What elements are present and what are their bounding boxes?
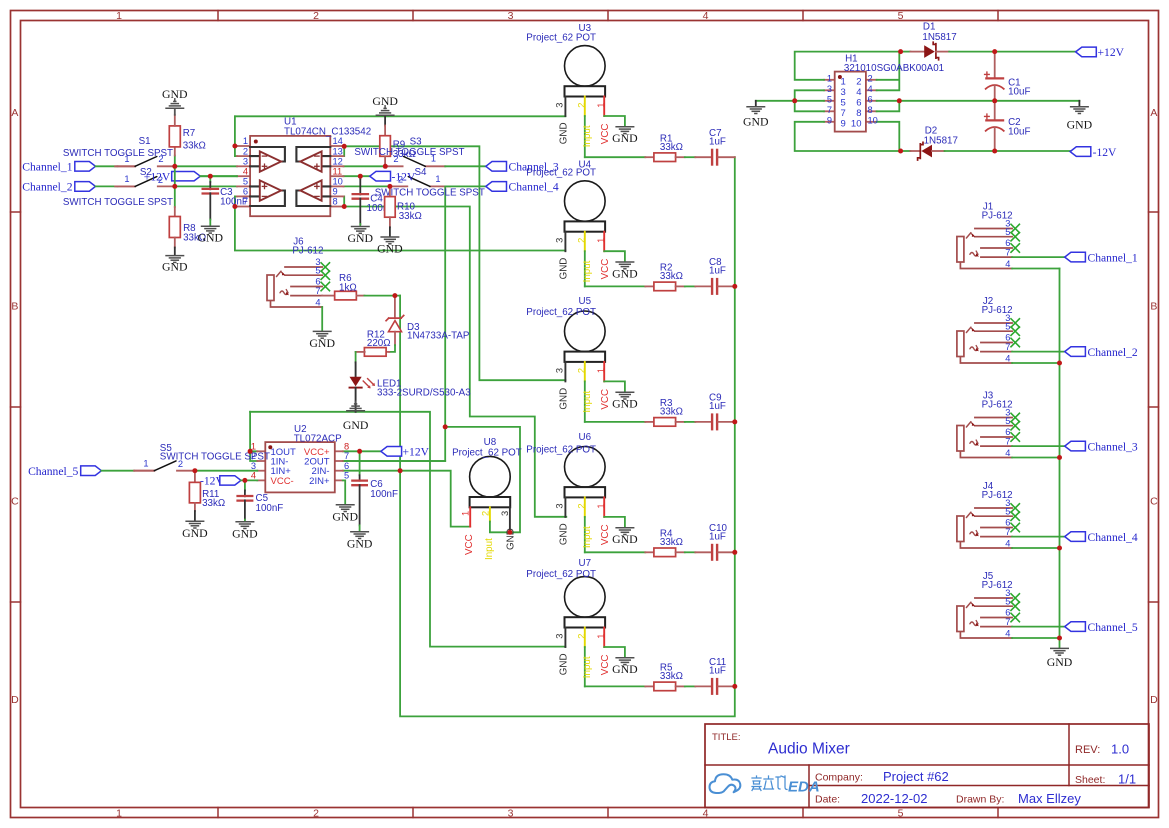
svg-text:4: 4	[1005, 353, 1010, 363]
svg-text:C: C	[1150, 496, 1158, 508]
svg-text:33kΩ: 33kΩ	[660, 671, 683, 682]
svg-text:GND: GND	[559, 523, 570, 545]
svg-text:REV:: REV:	[1075, 744, 1100, 756]
svg-text:5: 5	[827, 94, 832, 104]
svg-text:14: 14	[333, 136, 343, 146]
svg-text:2: 2	[856, 76, 861, 87]
svg-text:+12V: +12V	[403, 446, 430, 459]
svg-text:GND: GND	[612, 532, 638, 546]
svg-text:GND: GND	[559, 258, 570, 280]
svg-text:Input: Input	[582, 125, 593, 147]
svg-text:7: 7	[1005, 247, 1010, 257]
svg-text:33kΩ: 33kΩ	[660, 407, 683, 418]
svg-text:1: 1	[243, 136, 248, 146]
svg-text:5: 5	[344, 471, 349, 481]
svg-text:1N5817: 1N5817	[924, 136, 958, 147]
svg-text:PJ-612: PJ-612	[982, 211, 1013, 222]
svg-text:2: 2	[577, 368, 587, 373]
svg-text:3: 3	[500, 511, 510, 516]
svg-text:+12V: +12V	[144, 170, 171, 183]
svg-text:VCC: VCC	[600, 524, 611, 545]
svg-text:Input: Input	[582, 391, 593, 413]
svg-text:33kΩ: 33kΩ	[660, 271, 683, 282]
svg-text:3: 3	[243, 157, 248, 167]
svg-text:Channel_4: Channel_4	[1088, 531, 1138, 544]
svg-text:1: 1	[435, 174, 440, 184]
svg-text:GND: GND	[612, 131, 638, 145]
svg-text:1: 1	[116, 807, 122, 819]
svg-text:2: 2	[577, 634, 587, 639]
svg-text:7: 7	[1005, 527, 1010, 537]
svg-text:333-2SURD/S530-A3: 333-2SURD/S530-A3	[377, 387, 471, 398]
svg-text:-12V: -12V	[1093, 146, 1117, 159]
svg-text:2IN+: 2IN+	[309, 476, 330, 487]
svg-text:4: 4	[251, 471, 256, 481]
svg-text:U8: U8	[484, 437, 497, 448]
svg-text:6: 6	[243, 187, 248, 197]
svg-text:8: 8	[856, 108, 861, 119]
svg-text:321010SG0ABK00A01: 321010SG0ABK00A01	[844, 63, 944, 74]
svg-text:Project #62: Project #62	[883, 769, 949, 784]
svg-text:1: 1	[143, 459, 148, 469]
svg-text:3: 3	[555, 238, 565, 243]
svg-text:PJ-612: PJ-612	[982, 400, 1013, 411]
svg-text:C: C	[11, 496, 19, 508]
svg-text:33kΩ: 33kΩ	[202, 498, 225, 509]
svg-text:GND: GND	[559, 122, 570, 144]
svg-text:GND: GND	[372, 94, 398, 108]
svg-text:3: 3	[508, 10, 514, 22]
svg-text:8: 8	[344, 442, 349, 452]
svg-text:GND: GND	[332, 509, 358, 523]
svg-text:GND: GND	[1067, 118, 1093, 132]
svg-text:GND: GND	[1047, 655, 1073, 669]
svg-text:Project_62 POT: Project_62 POT	[526, 445, 596, 456]
svg-text:Audio Mixer: Audio Mixer	[768, 741, 850, 758]
svg-text:3: 3	[555, 503, 565, 508]
svg-text:B: B	[11, 301, 18, 313]
svg-text:PJ-612: PJ-612	[982, 490, 1013, 501]
svg-text:13: 13	[333, 146, 343, 156]
svg-text:GND: GND	[348, 231, 374, 245]
svg-text:5: 5	[1005, 596, 1010, 606]
svg-text:3: 3	[555, 368, 565, 373]
svg-text:1: 1	[596, 368, 606, 373]
svg-text:12: 12	[333, 157, 343, 167]
svg-text:Channel_5: Channel_5	[28, 465, 78, 478]
svg-text:S3: S3	[410, 136, 423, 147]
svg-text:7: 7	[1005, 617, 1010, 627]
svg-text:3: 3	[555, 103, 565, 108]
svg-text:4: 4	[703, 10, 709, 22]
svg-text:5: 5	[1005, 416, 1010, 426]
svg-text:2: 2	[480, 511, 490, 516]
svg-text:GND: GND	[232, 526, 258, 540]
svg-text:Channel_1: Channel_1	[1088, 251, 1138, 264]
svg-text:1: 1	[596, 103, 606, 108]
svg-text:Project_62 POT: Project_62 POT	[526, 569, 596, 580]
svg-text:9: 9	[841, 118, 846, 129]
svg-text:GND: GND	[377, 242, 403, 256]
svg-text:TL074CN_C133542: TL074CN_C133542	[284, 127, 371, 138]
svg-text:1: 1	[116, 10, 122, 22]
svg-text:1uF: 1uF	[709, 531, 726, 542]
svg-text:SWITCH TOGGLE SPST: SWITCH TOGGLE SPST	[63, 148, 173, 159]
svg-text:Input: Input	[582, 260, 593, 282]
svg-text:S1: S1	[139, 136, 151, 147]
svg-text:+12V: +12V	[1098, 46, 1125, 59]
svg-text:GND: GND	[559, 388, 570, 410]
svg-text:GND: GND	[309, 336, 335, 350]
svg-text:7: 7	[1005, 342, 1010, 352]
svg-text:2: 2	[868, 73, 873, 83]
svg-text:100nF: 100nF	[370, 489, 398, 500]
svg-text:VCC-: VCC-	[271, 476, 294, 487]
svg-text:-12V: -12V	[392, 170, 416, 183]
svg-text:4: 4	[856, 87, 861, 98]
svg-text:VCC: VCC	[600, 389, 611, 410]
svg-text:GND: GND	[612, 266, 638, 280]
svg-text:4: 4	[703, 807, 709, 819]
svg-text:10uF: 10uF	[1008, 87, 1030, 98]
svg-text:Project_62 POT: Project_62 POT	[526, 168, 596, 179]
svg-text:VCC: VCC	[464, 534, 475, 555]
svg-text:1.0: 1.0	[1111, 742, 1129, 757]
svg-text:10: 10	[333, 177, 343, 187]
svg-text:5: 5	[1005, 506, 1010, 516]
svg-text:10: 10	[868, 115, 878, 125]
svg-text:Company:: Company:	[815, 772, 863, 784]
svg-text:PJ-612: PJ-612	[982, 580, 1013, 591]
svg-text:1: 1	[827, 73, 832, 83]
svg-text:Input: Input	[484, 538, 495, 560]
svg-text:Sheet:: Sheet:	[1075, 774, 1105, 786]
svg-text:3: 3	[555, 634, 565, 639]
svg-text:GND: GND	[612, 397, 638, 411]
svg-text:U7: U7	[579, 558, 592, 569]
svg-text:GND: GND	[743, 115, 769, 129]
svg-text:VCC: VCC	[600, 259, 611, 280]
svg-text:5: 5	[1005, 321, 1010, 331]
svg-text:6: 6	[868, 94, 873, 104]
svg-text:9: 9	[827, 115, 832, 125]
svg-text:Channel_4: Channel_4	[509, 181, 559, 194]
svg-text:1kΩ: 1kΩ	[339, 283, 357, 294]
svg-text:10: 10	[851, 118, 862, 129]
svg-text:SWITCH TOGGLE SPST: SWITCH TOGGLE SPST	[354, 147, 464, 158]
svg-text:33kΩ: 33kΩ	[660, 142, 683, 153]
svg-text:Channel_5: Channel_5	[1088, 621, 1138, 634]
svg-text:Channel_3: Channel_3	[1088, 440, 1138, 453]
svg-text:SWITCH TOGGLE SPST: SWITCH TOGGLE SPST	[63, 197, 173, 208]
svg-text:Max Ellzey: Max Ellzey	[1018, 791, 1081, 806]
svg-text:A: A	[11, 107, 18, 119]
svg-text:GND: GND	[198, 231, 224, 245]
svg-text:1: 1	[124, 174, 129, 184]
svg-text:100nF: 100nF	[256, 503, 284, 514]
svg-text:4: 4	[1005, 628, 1010, 638]
svg-text:VCC: VCC	[600, 655, 611, 676]
svg-text:D: D	[1150, 694, 1158, 706]
svg-text:5: 5	[315, 265, 320, 275]
svg-text:2: 2	[577, 503, 587, 508]
svg-text:Channel_2: Channel_2	[1088, 346, 1138, 359]
svg-text:4: 4	[315, 297, 320, 307]
svg-text:4: 4	[1005, 448, 1010, 458]
svg-text:5: 5	[1005, 227, 1010, 237]
svg-text:3: 3	[508, 807, 514, 819]
svg-text:1: 1	[596, 503, 606, 508]
svg-text:1uF: 1uF	[709, 266, 726, 277]
svg-text:1: 1	[841, 76, 846, 87]
svg-text:7: 7	[827, 105, 832, 115]
svg-text:6: 6	[344, 461, 349, 471]
svg-text:7: 7	[841, 108, 846, 119]
svg-text:Input: Input	[582, 656, 593, 678]
svg-text:2: 2	[313, 807, 319, 819]
svg-text:GND: GND	[162, 87, 188, 101]
svg-text:Project_62 POT: Project_62 POT	[452, 447, 522, 458]
svg-text:3: 3	[827, 84, 832, 94]
svg-text:B: B	[1150, 301, 1157, 313]
svg-text:EDA: EDA	[788, 779, 820, 796]
svg-text:SWITCH TOGGLE SPST: SWITCH TOGGLE SPST	[160, 451, 270, 462]
svg-text:8: 8	[868, 105, 873, 115]
svg-text:GND: GND	[162, 260, 188, 274]
svg-text:33kΩ: 33kΩ	[660, 537, 683, 548]
svg-text:33kΩ: 33kΩ	[183, 141, 206, 152]
svg-text:1uF: 1uF	[709, 401, 726, 412]
svg-text:U5: U5	[579, 296, 592, 307]
svg-text:VCC: VCC	[600, 124, 611, 145]
svg-text:GND: GND	[343, 418, 369, 432]
svg-text:11: 11	[333, 166, 343, 176]
svg-text:S4: S4	[415, 167, 428, 178]
svg-text:6: 6	[856, 97, 861, 108]
svg-text:7: 7	[1005, 436, 1010, 446]
svg-text:3: 3	[841, 87, 846, 98]
svg-text:GND: GND	[612, 662, 638, 676]
svg-text:Channel_2: Channel_2	[22, 181, 72, 194]
svg-text:2: 2	[313, 10, 319, 22]
svg-text:PJ-612: PJ-612	[982, 305, 1013, 316]
svg-text:5: 5	[898, 10, 904, 22]
svg-text:2: 2	[243, 146, 248, 156]
svg-text:5: 5	[841, 97, 846, 108]
svg-text:2: 2	[577, 238, 587, 243]
svg-text:TITLE:: TITLE:	[712, 732, 741, 743]
svg-text:2022-12-02: 2022-12-02	[861, 791, 928, 806]
svg-text:1uF: 1uF	[709, 136, 726, 147]
svg-text:1/1: 1/1	[1118, 772, 1136, 787]
svg-text:5: 5	[243, 177, 248, 187]
svg-text:8: 8	[333, 197, 338, 207]
svg-text:1uF: 1uF	[709, 666, 726, 677]
svg-text:TL072ACP: TL072ACP	[294, 433, 342, 444]
svg-text:1: 1	[596, 238, 606, 243]
svg-text:1: 1	[596, 634, 606, 639]
svg-text:Project_62 POT: Project_62 POT	[526, 307, 596, 318]
svg-text:5: 5	[898, 807, 904, 819]
svg-text:Input: Input	[582, 526, 593, 548]
svg-text:1N4733A-TAP: 1N4733A-TAP	[407, 331, 470, 342]
svg-text:D: D	[11, 694, 19, 706]
svg-text:PJ-612: PJ-612	[292, 246, 323, 257]
svg-text:7: 7	[315, 286, 320, 296]
svg-text:4: 4	[868, 84, 873, 94]
svg-text:GND: GND	[559, 653, 570, 675]
svg-text:4: 4	[243, 166, 248, 176]
svg-text:1: 1	[460, 511, 470, 516]
svg-text:Channel_1: Channel_1	[22, 161, 72, 174]
svg-text:4: 4	[1005, 259, 1010, 269]
svg-text:U6: U6	[579, 432, 592, 443]
svg-text:9: 9	[333, 187, 338, 197]
svg-text:R7: R7	[183, 128, 196, 139]
svg-text:GND: GND	[347, 536, 373, 550]
svg-text:A: A	[1150, 107, 1157, 119]
svg-text:10uF: 10uF	[1008, 126, 1030, 137]
svg-text:1N5817: 1N5817	[922, 32, 956, 43]
svg-text:7: 7	[344, 451, 349, 461]
svg-text:220Ω: 220Ω	[367, 338, 391, 349]
svg-text:33kΩ: 33kΩ	[399, 211, 422, 222]
svg-text:Project_62 POT: Project_62 POT	[526, 32, 596, 43]
svg-text:2: 2	[577, 103, 587, 108]
svg-text:GND: GND	[182, 526, 208, 540]
svg-text:Drawn By:: Drawn By:	[956, 794, 1004, 806]
svg-text:4: 4	[1005, 538, 1010, 548]
